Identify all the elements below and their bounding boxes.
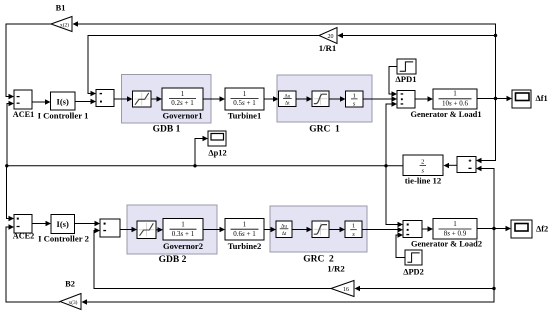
wire Governor2 to Turbine2: [203, 229, 221, 231]
wire B1 output to ACE1: [6, 24, 51, 97]
wire sum S3b to Generator Load2: [422, 228, 429, 230]
wire Governor1 to Turbine1: [203, 98, 221, 100]
arrow into scope Dp12: [203, 136, 209, 141]
svg-text:0.2s + 1: 0.2s + 1: [171, 99, 194, 107]
svg-text:Governor1: Governor1: [162, 110, 202, 120]
arrow into ACE1 top: [9, 94, 15, 99]
wire junction to tie sum input1: [481, 99, 496, 161]
wire tie-line to sum S3 area1: [386, 104, 393, 166]
svg-text:B2: B2: [65, 280, 75, 289]
svg-text:1: 1: [453, 90, 457, 98]
sum tie: [457, 157, 476, 173]
svg-text:Δp12: Δp12: [208, 148, 226, 157]
arrow into Turbine2: [220, 227, 226, 232]
wire tie-line down to sum S3 area2: [386, 166, 399, 225]
svg-text:GDB 1: GDB 1: [153, 125, 181, 135]
svg-text:10s + 0.6: 10s + 0.6: [442, 99, 468, 107]
sum S3 area1: [397, 91, 415, 109]
arrow into integrator 1: [340, 96, 346, 101]
svg-text:1: 1: [352, 223, 355, 230]
arrow into Generator Load1: [428, 96, 434, 101]
svg-text:1: 1: [181, 221, 185, 229]
arrow into sum S3 middle: [392, 96, 398, 101]
wire rate limiter 1 to saturation 1: [296, 98, 308, 100]
arrow into ACE2 top: [9, 216, 15, 221]
wire dead zone 1 to Governor1: [151, 98, 158, 100]
sum ACE2: [13, 215, 34, 241]
node 1/R2 branch: [492, 287, 495, 290]
wire ACE2 to I Controller 2: [32, 223, 47, 225]
wire branch down to ACE2: [7, 166, 10, 219]
svg-text:20: 20: [328, 34, 334, 40]
integrator 1: [346, 91, 364, 108]
GRC 2 group box: [270, 206, 367, 265]
node tie to ACE1/ACE2: [5, 164, 8, 167]
svg-text:x(2): x(2): [60, 21, 69, 28]
sum S3 area2: [403, 221, 422, 238]
wire branch to scope Dp12: [195, 139, 204, 166]
arrow into I Controller 1: [45, 99, 51, 104]
arrow into sum S2b top: [95, 221, 101, 226]
wire Generator Load2 to scope Df2: [477, 228, 507, 230]
wire Df2 down and B2 line: [86, 229, 494, 303]
svg-text:Δf2: Δf2: [536, 224, 548, 233]
svg-text:GDB 2: GDB 2: [159, 255, 187, 265]
arrow into sum S3b top: [398, 222, 404, 227]
arrow into tie sum input1: [476, 158, 482, 163]
arrow into rate limiter 1: [273, 96, 279, 101]
svg-text:Governor2: Governor2: [163, 241, 203, 251]
arrow into scope Df1: [507, 96, 513, 101]
svg-text:I(s): I(s): [57, 219, 69, 229]
wire feedback vertical right area1: [77, 24, 496, 99]
wire sum S2 to dead zone 1: [114, 98, 128, 100]
rate limiter 2: [276, 221, 292, 238]
svg-text:1: 1: [353, 93, 356, 100]
gain 1/R2: [327, 264, 354, 297]
wire sum S2b to dead zone 2: [120, 229, 133, 231]
svg-text:Δt: Δt: [282, 232, 287, 237]
arrow into sum S2b bottom: [95, 228, 101, 233]
arrow into Governor2: [158, 227, 164, 232]
rate limiter 1: [279, 91, 297, 107]
step PD2: [403, 250, 424, 277]
gain B2: [60, 280, 81, 310]
saturation 2: [312, 221, 329, 238]
svg-text:Δf1: Δf1: [536, 94, 548, 103]
arrow into sum S3 bottom: [392, 101, 398, 106]
node Dp12 branch: [193, 164, 196, 167]
arrow into Governor1: [157, 96, 163, 101]
wire Turbine2 to rate limiter 2: [264, 229, 272, 231]
wire 1/R1 output to sum S2: [88, 36, 319, 94]
arrow into rate limiter 2: [271, 227, 277, 232]
gain 1/R1: [319, 28, 337, 54]
arrow into scope Df2: [506, 226, 512, 231]
arrow into saturation 2: [307, 227, 313, 232]
node 1/R1 branch: [494, 34, 497, 37]
svg-text:1: 1: [243, 90, 247, 98]
arrow into I Controller 2: [46, 221, 52, 226]
wire B2 output to ACE2: [6, 227, 60, 302]
svg-text:ACE1: ACE1: [13, 110, 34, 119]
svg-text:0.6s + 1: 0.6s + 1: [233, 230, 256, 238]
sum S2 area1: [96, 90, 114, 107]
arrow into integrator 2: [340, 227, 346, 232]
dead zone 2: [137, 221, 156, 239]
arrow into dead zone 2: [132, 227, 138, 232]
svg-text:Turbine2: Turbine2: [228, 241, 262, 251]
arrow into Generator Load2: [428, 226, 434, 231]
arrow into tie-line block: [444, 163, 450, 168]
wire 1/R2 output to sum S2b: [94, 231, 331, 289]
svg-text:8s + 0.9: 8s + 0.9: [444, 230, 467, 238]
block Generator &amp; Load1: [410, 89, 481, 119]
wire Df2 junction up to tie sum input2: [481, 169, 494, 229]
integrator 2: [345, 221, 362, 238]
node Df2 junction: [492, 227, 495, 230]
node Df1 junction: [494, 97, 497, 100]
GDB 1 group box: [122, 75, 212, 135]
svg-text:1: 1: [243, 221, 247, 229]
svg-text:1/R1: 1/R1: [319, 43, 337, 53]
sum ACE1: [13, 90, 34, 119]
wire integrator 1 to sum S3: [363, 98, 393, 100]
arrow into Turbine1: [220, 96, 226, 101]
svg-text:1: 1: [181, 90, 185, 98]
wire tie-line main horizontal: [7, 165, 404, 167]
svg-text:Generator & Load2: Generator & Load2: [411, 240, 482, 249]
arrow into sum S3b middle: [398, 227, 404, 232]
svg-text:2: 2: [421, 159, 424, 166]
wire step PD2 to sum S3b: [396, 235, 405, 258]
block Turbine2: [225, 219, 264, 251]
wire step PD1 to sum S3: [389, 67, 397, 95]
svg-text:16: 16: [343, 287, 349, 293]
GRC 1 group box: [277, 75, 372, 135]
scope Dp12: [208, 131, 227, 157]
block I Controller 2: [38, 215, 89, 244]
scope Df1: [512, 90, 548, 108]
step PD1: [395, 59, 416, 84]
wire tie sum output to tie-line block: [448, 164, 457, 166]
wire branch up to ACE1: [7, 104, 10, 166]
wire integrator 2 to sum S3b: [362, 229, 399, 231]
svg-text:I Controller 2: I Controller 2: [38, 234, 89, 244]
svg-text:Generator & Load1: Generator & Load1: [410, 110, 481, 119]
wire 1/R2 feedback line: [359, 288, 494, 290]
svg-text:ΔPD1: ΔPD1: [395, 74, 416, 84]
arrow into sum S2 upper input: [91, 91, 97, 96]
saturation 1: [312, 91, 329, 107]
arrow into saturation 1: [307, 96, 313, 101]
wire saturation 2 to integrator 2: [329, 229, 341, 231]
wire I Controller 2 to sum S2b: [75, 223, 96, 225]
wire Turbine1 to rate limiter 1: [264, 98, 274, 100]
arrow into ACE2 bottom: [9, 224, 15, 229]
svg-text:1/R2: 1/R2: [327, 264, 345, 274]
arrow into B1 gain: [73, 21, 79, 26]
wire I Controller 1 to sum S2: [75, 101, 92, 103]
arrow into B2 gain: [82, 299, 88, 304]
wire dead zone 2 to Governor2: [156, 229, 159, 231]
wire saturation 1 to integrator 1: [329, 98, 341, 100]
block Governor2: [163, 219, 203, 251]
block tie-line 12: [403, 155, 443, 186]
arrow into 1/R1 gain: [338, 33, 344, 38]
wire rate limiter 2 to saturation 2: [292, 229, 308, 231]
block Turbine1: [225, 88, 264, 120]
arrow into ACE1 bottom: [9, 101, 15, 106]
GDB 2 group box: [127, 205, 217, 265]
block Governor1: [162, 88, 203, 120]
arrow into tie sum input2: [476, 166, 482, 171]
arrow into dead zone 1: [127, 96, 133, 101]
svg-text:ΔPD2: ΔPD2: [403, 268, 424, 277]
svg-text:Turbine1: Turbine1: [228, 110, 262, 120]
node tie to sums: [384, 164, 387, 167]
svg-text:tie-line 12: tie-line 12: [405, 176, 441, 186]
arrow into 1/R2 gain: [355, 286, 361, 291]
wire ACE1 to I Controller 1: [32, 101, 46, 103]
arrow into sum S2 lower input: [91, 99, 97, 104]
dead zone 1: [133, 91, 152, 107]
arrow into sum S3b bottom: [398, 232, 404, 237]
wire sum S3 to Generator Load1: [415, 98, 429, 100]
wire 1/R1 feedback line: [342, 35, 496, 37]
svg-text:Δt: Δt: [285, 102, 290, 107]
gain B1: [51, 4, 72, 32]
block I Controller 1: [38, 92, 89, 121]
svg-text:I(s): I(s): [57, 97, 69, 107]
wire Generator Load1 to scope Df1: [477, 98, 508, 100]
svg-text:ACE2: ACE2: [13, 232, 34, 241]
scope Df2: [511, 220, 548, 238]
svg-text:GRC 1: GRC 1: [309, 125, 340, 135]
svg-text:1: 1: [453, 220, 457, 228]
arrow into sum S3 top: [392, 91, 398, 96]
svg-text:0.3s + 1: 0.3s + 1: [172, 230, 195, 238]
svg-text:I Controller 1: I Controller 1: [38, 111, 89, 121]
svg-text:B1: B1: [56, 4, 66, 13]
sum S2 area2: [100, 219, 120, 237]
svg-text:0.5s + 1: 0.5s + 1: [233, 99, 256, 107]
svg-text:x(3): x(3): [69, 299, 78, 306]
block Generator &amp; Load2: [411, 219, 482, 249]
